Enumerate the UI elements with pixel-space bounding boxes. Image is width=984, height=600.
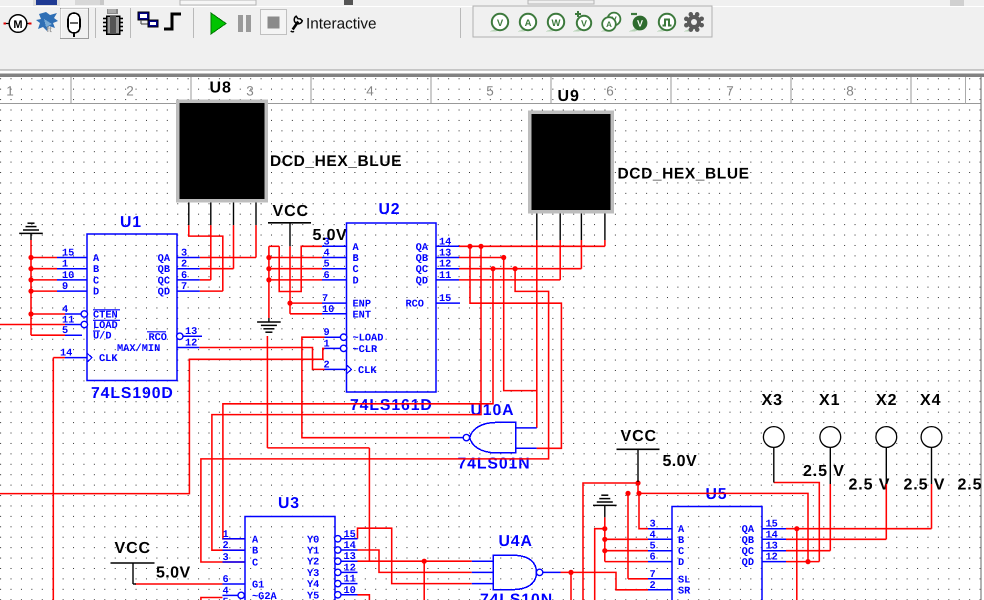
svg-text:W: W	[552, 18, 561, 29]
svg-text:VCC: VCC	[273, 203, 309, 220]
svg-text:CLK: CLK	[358, 365, 377, 377]
svg-text:SR: SR	[678, 585, 691, 597]
svg-text:Y4: Y4	[307, 579, 319, 591]
svg-text:U/D: U/D	[93, 331, 112, 343]
svg-text:QD: QD	[742, 557, 754, 569]
svg-text:M: M	[13, 19, 22, 31]
svg-text:U5: U5	[706, 486, 728, 503]
svg-text:DCD_HEX_BLUE: DCD_HEX_BLUE	[270, 153, 402, 170]
svg-text:2.5: 2.5	[958, 477, 983, 494]
svg-text:U8: U8	[210, 80, 232, 97]
svg-text:U3: U3	[278, 495, 300, 512]
svg-text:QC: QC	[416, 264, 428, 276]
svg-text:V: V	[637, 19, 643, 29]
svg-text:Interactive: Interactive	[306, 16, 377, 33]
svg-text:RCO: RCO	[405, 299, 424, 311]
svg-text:2.5 V: 2.5 V	[904, 477, 946, 494]
svg-text:DCD_HEX_BLUE: DCD_HEX_BLUE	[618, 166, 750, 183]
svg-text:QD: QD	[158, 287, 170, 299]
svg-text:C: C	[252, 558, 258, 570]
svg-text:VCC: VCC	[115, 540, 151, 557]
svg-text:5.0V: 5.0V	[156, 565, 191, 582]
svg-text:74LS161D: 74LS161D	[350, 397, 433, 414]
svg-text:RCO: RCO	[148, 332, 167, 344]
svg-text:QB: QB	[158, 264, 170, 276]
svg-text:C: C	[93, 275, 99, 287]
svg-text:U9: U9	[558, 88, 580, 105]
svg-text:2.5 V: 2.5 V	[849, 477, 891, 494]
svg-text:A: A	[525, 18, 532, 29]
svg-text:D: D	[93, 287, 99, 299]
svg-text:A: A	[606, 20, 612, 29]
svg-text:8: 8	[846, 84, 854, 99]
svg-text:QB: QB	[742, 535, 754, 547]
svg-text:2: 2	[126, 84, 134, 99]
svg-text:A: A	[93, 253, 100, 265]
svg-text:X1: X1	[819, 392, 840, 409]
svg-text:4: 4	[366, 84, 374, 99]
svg-text:5: 5	[223, 597, 229, 600]
svg-text:D: D	[678, 557, 684, 569]
svg-text:74LS10N: 74LS10N	[480, 592, 553, 600]
svg-text:1: 1	[6, 84, 14, 99]
svg-text:Y3: Y3	[307, 568, 319, 580]
svg-text:~CLR: ~CLR	[353, 344, 379, 356]
svg-text:D: D	[353, 275, 359, 287]
svg-text:Y1: Y1	[307, 546, 319, 558]
svg-text:U4A: U4A	[499, 533, 533, 550]
svg-text:X4: X4	[920, 392, 941, 409]
svg-text:V: V	[497, 18, 504, 29]
svg-text:5.0V: 5.0V	[663, 453, 698, 470]
svg-text:A: A	[252, 534, 259, 546]
svg-text:G1: G1	[252, 580, 264, 592]
svg-text:QB: QB	[416, 253, 428, 265]
svg-text:6: 6	[606, 84, 614, 99]
svg-text:QD: QD	[416, 275, 428, 287]
svg-text:X3: X3	[762, 392, 783, 409]
svg-text:X2: X2	[876, 392, 897, 409]
svg-text:U2: U2	[379, 201, 401, 218]
svg-text:U1: U1	[120, 214, 142, 231]
svg-text:74LS01N: 74LS01N	[458, 456, 531, 473]
svg-text:B: B	[93, 264, 99, 276]
svg-text:QC: QC	[158, 275, 170, 287]
svg-text:Y0: Y0	[307, 534, 319, 546]
svg-text:CLK: CLK	[99, 353, 118, 365]
svg-text:VCC: VCC	[621, 428, 657, 445]
svg-text:5.0V: 5.0V	[313, 227, 348, 244]
svg-text:Y2: Y2	[307, 557, 319, 569]
svg-text:B: B	[353, 253, 359, 265]
svg-text:QA: QA	[158, 253, 171, 265]
svg-text:~G2A: ~G2A	[252, 591, 278, 600]
svg-text:V: V	[581, 19, 587, 29]
svg-text:2.5 V: 2.5 V	[803, 463, 845, 480]
svg-text:A: A	[353, 242, 360, 254]
svg-text:ft: ft	[47, 25, 53, 34]
svg-text:5: 5	[486, 84, 494, 99]
svg-text:B: B	[678, 535, 684, 547]
svg-text:~LOAD: ~LOAD	[353, 333, 384, 345]
svg-text:MAX/MIN: MAX/MIN	[117, 343, 160, 355]
svg-text:B: B	[252, 546, 258, 558]
svg-text:QA: QA	[416, 242, 429, 254]
svg-text:Y5: Y5	[307, 590, 319, 600]
svg-text:ENT: ENT	[353, 309, 372, 321]
svg-text:7: 7	[726, 84, 734, 99]
svg-text:74LS190D: 74LS190D	[91, 385, 174, 402]
svg-text:3: 3	[246, 84, 254, 99]
svg-text:C: C	[353, 264, 359, 276]
